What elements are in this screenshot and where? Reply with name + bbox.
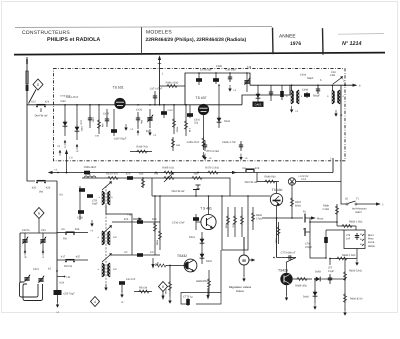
- svg-text:Piezo: Piezo: [317, 218, 324, 221]
- label DM-FM-LW under switch: [35, 108, 48, 117]
- main lower bus y=172.5: [48, 169, 333, 175]
- capacitor C495: [269, 85, 273, 101]
- svg-text:8: 8: [162, 285, 164, 289]
- terminal P1: [303, 211, 324, 232]
- IF transformer S472 with trimmer: [327, 71, 345, 117]
- svg-text:N° 1214: N° 1214: [342, 41, 362, 47]
- resistor R688-2.2k vertical: [322, 204, 338, 218]
- diode Dv59: [314, 271, 338, 282]
- detector diode DA05: [253, 85, 264, 107]
- capacitor LT5-1uF output: [328, 267, 335, 285]
- svg-text:Prise: Prise: [368, 238, 374, 241]
- node K21 stub: [56, 270, 71, 284]
- resistor R885 vertical: [196, 270, 211, 295]
- capacitor CT75-1uF bottom: [183, 250, 221, 306]
- svg-text:C483+4.7nF: C483+4.7nF: [222, 141, 236, 144]
- svg-text:K17: K17: [61, 256, 66, 259]
- svg-text:+1b: +1b: [127, 214, 132, 217]
- svg-text:C475: C475: [103, 113, 110, 116]
- svg-text:moteur: moteur: [236, 290, 244, 293]
- diode D462: [200, 250, 213, 264]
- svg-text:Dv59: Dv59: [315, 271, 321, 274]
- label Regulateur vitesse moteur: [229, 286, 252, 293]
- capacitor C426 55pF: [136, 109, 143, 136]
- svg-text:Dv60: Dv60: [303, 296, 309, 299]
- resistor R486 vertical: [171, 137, 180, 151]
- svg-text:K33: K33: [46, 187, 51, 190]
- left column: switch K32-K33: [32, 181, 57, 194]
- node K3 label: [60, 194, 64, 197]
- capacitor C555-48nF on bus: [84, 166, 97, 174]
- resistor R496-220 on supply: [160, 82, 186, 88]
- capacitor C410 22uF (dark): [187, 105, 201, 125]
- svg-text:DM-FM-LW: DM-FM-LW: [172, 190, 185, 193]
- capacitor CT73-680nF: [277, 252, 297, 260]
- test point arrow 1.9 into box: [57, 145, 73, 173]
- capacitor C471-47nF: [150, 88, 163, 105]
- svg-text:TS432: TS432: [177, 254, 187, 258]
- svg-text:K28: K28: [255, 167, 260, 170]
- wire IF output down right side: [340, 85, 342, 161]
- main bus (top, y=105): [54, 104, 243, 106]
- svg-text:téléph.: téléph.: [368, 245, 376, 248]
- wires jack network: [310, 218, 356, 258]
- svg-text:C478/23pF: C478/23pF: [200, 69, 213, 72]
- FM tuner: slug adjust dash line: [105, 186, 107, 290]
- IF transformer S475 (third): [98, 253, 118, 291]
- test point +1 under D430: [64, 140, 67, 149]
- capacitor C496: [280, 85, 284, 100]
- trimmer T482 oscillator: [244, 66, 251, 92]
- trimmer C512: [146, 109, 153, 133]
- resistor R884-3900 vertical long: [156, 196, 162, 250]
- supply arrow feed at top: [158, 55, 164, 105]
- FM input cap (dark, left): [79, 186, 85, 220]
- resistor R693-22k: [343, 265, 361, 288]
- capacitor CT30-47nF: [172, 214, 199, 230]
- wire loop antenna riser: [19, 233, 21, 282]
- resistor R472: [191, 173, 203, 180]
- transistor TS501: [113, 86, 126, 110]
- resistor R690-8210: [343, 288, 363, 316]
- svg-text:DM-FM-LW: DM-FM-LW: [245, 181, 258, 184]
- diamond node lower-left: [91, 297, 100, 307]
- svg-text:R10: R10: [139, 173, 144, 176]
- wire audio bus drop at x=152: [151, 178, 153, 196]
- svg-text:TS 437: TS 437: [196, 96, 207, 100]
- svg-text:R10: R10: [152, 218, 157, 221]
- svg-text:2x30: 2x30: [60, 100, 66, 103]
- capacitor K20: [126, 173, 133, 180]
- resistor R448 1.8k: [184, 105, 191, 136]
- coil L480: [84, 173, 96, 178]
- svg-text:FM-LW: FM-LW: [64, 265, 73, 268]
- label DM-FM-LW mid: [172, 190, 185, 193]
- resistor R54-39: [134, 287, 152, 294]
- svg-text:560pF: 560pF: [313, 95, 321, 98]
- resistor R689-2.2k lower: [330, 254, 356, 260]
- motor M: [239, 255, 255, 282]
- lamp LP1: [288, 175, 341, 185]
- switch K8-K28 on bus: [242, 167, 259, 184]
- capacitor C-1nF under T3: [119, 278, 136, 304]
- svg-text:TS 430: TS 430: [272, 188, 283, 192]
- label Bu41 prise ecouteur: [368, 234, 376, 248]
- resistor R440: [97, 105, 100, 134]
- svg-text:C555-48nF: C555-48nF: [84, 166, 97, 169]
- svg-text:C48-30pF: C48-30pF: [225, 69, 237, 72]
- svg-text:CT73-680 nF: CT73-680 nF: [281, 252, 296, 255]
- svg-text:1/C: 1/C: [150, 251, 154, 254]
- svg-text:820Ω: 820Ω: [295, 205, 301, 208]
- row K26 between IF cans: [112, 195, 160, 255]
- capacitor C490: [88, 105, 95, 128]
- svg-text:R690-8210: R690-8210: [350, 298, 363, 301]
- svg-text:22μ: 22μ: [194, 122, 199, 125]
- resistor R485 vertical long: [275, 222, 281, 244]
- extra labels top right IF: [300, 74, 335, 83]
- svg-text:C421: C421: [33, 268, 40, 271]
- module box 1 (tuner/IF dashed outline): [54, 69, 346, 161]
- svg-text:R683-1.2kΩ: R683-1.2kΩ: [349, 221, 363, 224]
- wire LT5/R693 node up: [329, 258, 345, 265]
- wire S2 from bus: [341, 161, 346, 204]
- svg-text:C1μF: C1μF: [328, 270, 335, 273]
- svg-text:R54-39: R54-39: [139, 287, 148, 290]
- svg-text:R685-45Ω: R685-45Ω: [295, 285, 307, 288]
- wire bus rise to detector row: [242, 85, 290, 105]
- capacitor C483-4.7nF: [222, 141, 248, 160]
- IF out terminal arrow node 3: [343, 80, 361, 88]
- output loop rectangle (bottom middle): [181, 288, 221, 304]
- capacitor C750 (dark): [77, 210, 84, 219]
- TS437 emitter resistor PTO-3.2k: [202, 115, 219, 159]
- capacitor C487 (dark): [161, 105, 174, 118]
- diode Dv60: [303, 278, 317, 310]
- wire lamp feed from bus: [257, 173, 260, 182]
- svg-text:C4x 1nF: C4x 1nF: [126, 278, 136, 281]
- svg-text:radio?: radio?: [355, 211, 363, 214]
- label 2x30: [60, 100, 66, 103]
- svg-text:C4Tb-42nF: C4Tb-42nF: [60, 95, 71, 98]
- ground jack network: [352, 249, 359, 266]
- resistor R886-5600 vertical: [164, 265, 172, 304]
- resistor R10 vertical: [139, 173, 145, 189]
- svg-text:R449-7kΩ: R449-7kΩ: [136, 146, 147, 149]
- diode D430: [63, 105, 68, 136]
- svg-text:6: 6: [38, 211, 40, 215]
- IF transformer S470: [286, 85, 303, 113]
- svg-text:D434: D434: [224, 120, 231, 123]
- svg-text:22RR464/29 (Philips), 22RR464/: 22RR464/29 (Philips), 22RR464/28 (Radiol…: [146, 37, 247, 43]
- svg-text:C426: C426: [136, 109, 143, 112]
- terminal arrow C down: [151, 258, 157, 269]
- svg-text:1.9: 1.9: [69, 157, 73, 160]
- svg-text:C53: C53: [41, 229, 46, 232]
- earphone jack box Bu41: [344, 230, 365, 249]
- resistor R685-450: [293, 277, 312, 287]
- svg-text:R686-560: R686-560: [265, 176, 277, 179]
- header top rule: [15, 26, 272, 29]
- resistor R540 vertical: [172, 105, 178, 134]
- svg-text:C480: C480: [216, 65, 223, 68]
- svg-text:2.2kΩ: 2.2kΩ: [322, 208, 329, 211]
- svg-text:K32: K32: [32, 187, 37, 190]
- wire osc transformer to bus: [106, 205, 132, 255]
- oscillator top bus y=73: [185, 73, 250, 105]
- svg-text:R470-2.2kΩ: R470-2.2kΩ: [205, 167, 219, 170]
- capacitor C553-70uF (dark): [54, 290, 76, 314]
- resistor R683-1.2k: [337, 221, 363, 228]
- svg-text:0.1A: 0.1A: [301, 178, 306, 181]
- header bottom rule: [14, 53, 385, 55]
- oscillator row bus y=178: [82, 178, 230, 196]
- svg-text:T S 431: T S 431: [200, 207, 212, 211]
- ground tap on osc row: [196, 185, 201, 189]
- resistor R417-470: [106, 173, 119, 180]
- row K27 lower: [112, 251, 160, 257]
- svg-text:C467a: C467a: [22, 229, 30, 232]
- svg-text:K22: K22: [31, 101, 36, 104]
- svg-text:DA05: DA05: [255, 104, 262, 107]
- capacitor C430: [75, 105, 83, 140]
- svg-text:NNpF: NNpF: [307, 77, 314, 80]
- junction dots lower buses: [57, 172, 338, 259]
- svg-text:PHILIPS et RADIOLA: PHILIPS et RADIOLA: [47, 37, 100, 43]
- junction dots bus 85/95: [198, 72, 333, 96]
- TS430 emitter row to P1: [262, 217, 303, 219]
- svg-text:R47: R47: [194, 173, 199, 176]
- svg-text:CT30-47nF: CT30-47nF: [172, 222, 185, 225]
- band switch column wire: [56, 181, 58, 293]
- ground tap on bus196: [193, 190, 199, 197]
- diamond node 6 (lower): [34, 208, 44, 234]
- svg-text:C487: C487: [168, 109, 174, 112]
- junction dots bus 105: [64, 104, 187, 106]
- oscillator caps row: C478 23pF: [196, 69, 213, 86]
- trimmer C467a: [22, 229, 30, 259]
- svg-text:R496-220Ω: R496-220Ω: [166, 82, 179, 85]
- trimmer row wire: [20, 232, 57, 234]
- svg-text:D462: D462: [206, 260, 213, 263]
- svg-text:C55-70μF: C55-70μF: [64, 293, 76, 296]
- resistor R470-2.2k on bus: [197, 167, 237, 175]
- svg-text:T04: T04: [154, 173, 159, 176]
- svg-text:LW: LW: [67, 276, 71, 279]
- ground under trimmer: [148, 129, 156, 137]
- svg-text:D461: D461: [189, 236, 196, 239]
- node 2 label at box edge: [330, 158, 332, 161]
- capacitor CTR8-91pF (dark): [87, 194, 98, 205]
- svg-text:K2A: K2A: [60, 282, 65, 285]
- svg-text:C494: C494: [300, 74, 307, 77]
- svg-text:C471-47nF: C471-47nF: [150, 88, 163, 91]
- svg-text:DM-FM-LW: DM-FM-LW: [35, 115, 48, 118]
- transistor TS429: [278, 269, 293, 301]
- svg-text:L480: L480: [85, 173, 91, 176]
- switch K17-K37 row: [57, 256, 88, 269]
- oscillator transformer S471 with trimmer: [99, 181, 114, 205]
- switch K22-K24 on antenna bus: [27, 101, 54, 108]
- resistor R88-47k: [232, 207, 237, 237]
- TS430 collector wire down: [276, 218, 278, 258]
- svg-text:TS 501: TS 501: [113, 86, 124, 90]
- svg-text:C4B: C4B: [330, 74, 335, 77]
- wire output node joins: [338, 278, 346, 280]
- transistor TS430: [270, 182, 282, 219]
- bus y=85 to IF output: [250, 84, 345, 86]
- header column separators: [141, 27, 143, 53]
- loop antenna L421: [20, 268, 52, 301]
- capacitor C455-47nF: [187, 141, 212, 160]
- capacitor C498 560pF: [302, 89, 321, 99]
- diode D434: [217, 85, 231, 128]
- svg-text:A885-PR6: A885-PR6: [196, 280, 208, 283]
- svg-text:R495-10Ω: R495-10Ω: [162, 167, 174, 170]
- svg-text:C750: C750: [77, 217, 84, 220]
- label C494-47nF input cap group: [66, 96, 79, 99]
- diode D461: [189, 232, 204, 250]
- switch S2/T1 on-off: [345, 198, 384, 214]
- svg-text:K24: K24: [45, 101, 50, 104]
- capacitor C481 30pF: [225, 69, 237, 93]
- svg-text:4: 4: [94, 300, 96, 304]
- resistor R690-17k vertical: [251, 207, 262, 230]
- svg-text:FM: FM: [63, 238, 67, 241]
- terminal P2: [305, 228, 310, 236]
- svg-text:C407-50μF: C407-50μF: [114, 138, 127, 141]
- svg-text:17kΩ: 17kΩ: [256, 218, 262, 221]
- terminal arrow 1k: [127, 214, 142, 221]
- svg-text:K20: K20: [126, 173, 131, 176]
- svg-text:6: 6: [37, 83, 39, 87]
- resistor R88-41: [225, 207, 230, 237]
- svg-text:écout-: écout-: [368, 241, 375, 244]
- svg-text:K26: K26: [124, 218, 129, 221]
- svg-text:Bu41: Bu41: [368, 234, 374, 237]
- svg-text:R689-2.2kΩ: R689-2.2kΩ: [342, 254, 356, 257]
- trimmer C532: [40, 229, 46, 259]
- wire diamond to antenna bus: [29, 90, 37, 104]
- wire bus to box corner: [332, 158, 334, 173]
- resistor R495-10k on bus: [155, 167, 175, 175]
- svg-text:MODELES: MODELES: [146, 29, 172, 35]
- ground FM input: [90, 220, 94, 233]
- svg-text:R693-22kΩ: R693-22kΩ: [349, 270, 362, 273]
- motor top lead: [243, 237, 245, 255]
- svg-text:R417+470: R417+470: [106, 173, 118, 176]
- switch K31-K33b row: [57, 228, 88, 241]
- node 6 (diamond test point): [33, 79, 43, 90]
- transistor TS431: [196, 196, 216, 230]
- svg-text:PTO-3.2kΩ: PTO-3.2kΩ: [207, 150, 220, 153]
- bus y=196 (audio section): [152, 195, 270, 197]
- diamond node 8: [159, 282, 168, 301]
- capacitor C407-50uF: [111, 109, 127, 141]
- svg-text:C498: C498: [302, 89, 309, 92]
- extra labels left cluster: [60, 95, 100, 138]
- antenna ANT1 telescopic: [26, 57, 29, 105]
- svg-text:CONSTRUCTEURS: CONSTRUCTEURS: [22, 30, 70, 36]
- resistor R686-560: [260, 176, 279, 184]
- svg-text:SW: SW: [39, 191, 44, 194]
- svg-text:Régulateur vitesse: Régulateur vitesse: [229, 286, 252, 289]
- svg-text:220μF: 220μF: [305, 246, 313, 249]
- svg-text:1nF: 1nF: [346, 237, 351, 240]
- volume pot R47 with arrow: [154, 172, 175, 182]
- capacitor C79-220uF: [305, 230, 328, 252]
- resistor R449 (left, mid band): [130, 146, 152, 154]
- transistor TS432: [166, 254, 197, 272]
- resistor R52-100k base: [155, 262, 167, 267]
- antenna feeder wire down left side: [27, 105, 35, 181]
- svg-text:1976: 1976: [290, 41, 301, 47]
- svg-text:K37: K37: [76, 256, 81, 259]
- svg-text:C455-47nF: C455-47nF: [187, 141, 200, 144]
- resistor R88b: [240, 207, 243, 237]
- IF transformer S473: [98, 225, 118, 245]
- ground TS501 emitter: [124, 124, 133, 131]
- svg-text:91pF: 91pF: [92, 203, 98, 206]
- capacitor C480: [213, 65, 223, 84]
- bias network box wires: [222, 196, 248, 250]
- resistor R487 820: [290, 182, 301, 219]
- svg-text:ANNEE: ANNEE: [279, 34, 296, 40]
- transistor TS437: [196, 96, 210, 115]
- test point +4 under C430: [76, 144, 79, 153]
- svg-text:T48: T48: [247, 66, 252, 69]
- capacitor C499: [316, 85, 320, 94]
- capacitor C475 91pF: [101, 109, 110, 128]
- TS429 collector wire: [287, 258, 297, 273]
- svg-text:K33: K33: [75, 228, 80, 231]
